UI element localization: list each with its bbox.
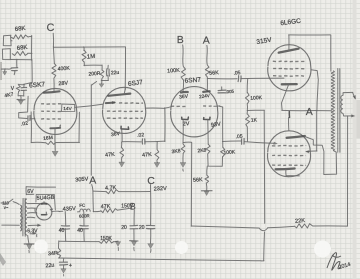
wire 400K to plate [53, 78, 55, 91]
svg-text:22u: 22u [111, 70, 120, 77]
6L6 lower plate wire to OT bottom [305, 137, 337, 175]
resistor 4K7 grid leak [4, 85, 20, 99]
label 6SJ7 [128, 79, 144, 88]
6L6 upper cathode bar [282, 83, 297, 86]
wire A column down [92, 185, 94, 212]
wire choke to A node [93, 210, 100, 212]
wire to coupling cap [16, 59, 18, 67]
6L6 lower grid row 3 [272, 164, 306, 167]
resistor 56K (tail) [193, 175, 209, 184]
label 6SK7 [29, 81, 46, 89]
label 93V [211, 121, 222, 128]
label 315V [256, 37, 273, 46]
label 110v mains [2, 201, 9, 210]
ground (56K tail) [202, 183, 213, 196]
6SJ7 grid row 3 [107, 117, 143, 120]
junction tick [288, 112, 290, 118]
6SK7 cathode bar [50, 125, 60, 128]
wire rectifier output 435V [52, 210, 63, 212]
6SK7 grid row 3 [41, 118, 61, 121]
resistor 200R [88, 65, 104, 79]
svg-text:68K: 68K [17, 45, 28, 52]
6SN7 left cathode [182, 117, 189, 120]
6SJ7 cathode wire [121, 130, 123, 142]
mains wire 2 [2, 224, 20, 226]
wire right plate node [208, 78, 238, 80]
svg-text:v~: v~ [4, 205, 9, 210]
6SN7 right grid [203, 105, 220, 107]
svg-text:22u: 22u [45, 262, 55, 269]
power transformer core [23, 198, 25, 236]
wire feedback vertical [190, 143, 192, 227]
rectifier 5U4GB label box [36, 194, 55, 210]
capacitor .05 (lower coupling) [235, 134, 244, 145]
wire 4.7K to C [119, 191, 151, 193]
wire HV secondary to ground [28, 235, 29, 244]
label 6V winding box [26, 187, 56, 195]
6SJ7 grid row 2 [107, 110, 143, 113]
wire screen column (A) [91, 82, 96, 176]
label 14V box [62, 104, 75, 112]
svg-text:A: A [306, 106, 313, 118]
wire to lower tube [288, 118, 290, 131]
power transformer secondary [25, 199, 27, 235]
6SK7 lower box bottom + resistor 16M [31, 135, 79, 144]
svg-text:20: 20 [121, 225, 127, 231]
ground (47K grid leak) [154, 160, 160, 167]
wire cathode return bottom [59, 258, 264, 261]
label 435V [63, 206, 77, 213]
power transformer primary [20, 205, 22, 231]
label 2V [183, 121, 190, 127]
wire jack box bottom [11, 59, 33, 61]
6L6 lower cathode hook [286, 169, 300, 176]
label 36V [111, 131, 121, 138]
tube 6L6 lower envelope [268, 131, 311, 177]
svg-text:100K: 100K [250, 95, 263, 102]
label 6L6GC [280, 18, 302, 27]
capacitor 40uF output [77, 212, 88, 242]
svg-text:22K: 22K [295, 218, 306, 225]
tube 6L6 upper envelope [268, 45, 311, 91]
wire grid2 column [220, 106, 223, 147]
label 232V [154, 186, 168, 193]
filament wire 2 [30, 231, 37, 237]
wire node to long vertical [247, 109, 264, 111]
secondary tap 4 [27, 213, 37, 218]
speaker terminal bottom [343, 114, 355, 118]
resistor 150K (bleeder) [99, 236, 114, 244]
input jack J1 [3, 35, 12, 45]
6SN7 left cathode wire [182, 120, 184, 144]
wire 1M to screen node [84, 62, 102, 66]
speaker terminal top [343, 92, 356, 99]
label 28V [58, 81, 68, 88]
paper hole punch right [314, 241, 331, 258]
capacitor .02 (interstage) [137, 132, 145, 144]
wire 435V node [78, 211, 80, 213]
6SJ7 cathode hook [121, 126, 129, 129]
svg-text:34R: 34R [48, 251, 58, 258]
svg-text:28V: 28V [58, 81, 68, 88]
svg-text:20: 20 [139, 225, 145, 231]
resistor 68K (lower mixing resistor) [12, 45, 32, 56]
wire feedback bottom left [191, 226, 258, 228]
ground (150K) [114, 241, 121, 251]
capacitor .05 (upper coupling) [233, 70, 241, 82]
wire 6SJ7 right to corner [146, 107, 165, 109]
resistor 1M (screen feed) [82, 47, 95, 62]
6L6 upper grid row 3 [273, 75, 304, 78]
label 305V A [75, 174, 96, 186]
paper hole punch middle [175, 241, 188, 254]
ground (47K) [119, 157, 125, 167]
6L6 lower grid row 1 [272, 144, 306, 147]
label 150V B [121, 201, 136, 211]
6SK7 cathode wire [54, 129, 56, 150]
resistor 47K (cathode) [105, 142, 124, 158]
svg-text:232V: 232V [154, 186, 168, 193]
wire C column [150, 185, 152, 226]
tube 6SJ7 envelope [103, 87, 146, 133]
6SK7 lower box left [30, 112, 32, 143]
secondary tap 3 [28, 212, 35, 214]
wire A to OT center tap [317, 110, 332, 112]
wire 1K down [246, 127, 248, 141]
svg-text:3K8: 3K8 [171, 148, 181, 155]
wire .05 to lower 6L6 grid [244, 142, 278, 145]
svg-text:A: A [89, 174, 96, 186]
resistor 2K8 [197, 144, 210, 154]
node A label (right) [306, 106, 313, 118]
wire B down [182, 45, 185, 67]
resistor 400K (6SK7 plate load) [52, 47, 71, 78]
mains switch [1, 199, 19, 204]
ground (6SK7 cathode) [52, 151, 58, 156]
wire A down [206, 45, 209, 65]
capacitor (input RF bypass) [11, 68, 17, 75]
wire grid2 to .05 [222, 140, 241, 143]
tube 6SK7 envelope [34, 88, 77, 134]
wire bus to 34R [58, 241, 60, 248]
wire 56K tail [206, 166, 209, 175]
svg-text:305V: 305V [75, 176, 89, 183]
resistor 68K (upper mixing resistor) [11, 26, 32, 39]
wire filter ground bus [59, 240, 99, 242]
wire cathode bottoms join [208, 154, 223, 167]
5U4GB plate bar [42, 202, 47, 204]
filter choke FC 600R [79, 203, 90, 219]
wire grid network bottom [18, 92, 24, 100]
6SK7 plate bar [44, 91, 60, 92]
svg-text:.02: .02 [21, 121, 29, 128]
svg-text:B: B [130, 201, 136, 211]
svg-text:FC: FC [79, 203, 85, 208]
resistor 100K (grid 2 leak) [221, 147, 236, 157]
capacitor .005 (inverter tap) [218, 87, 235, 94]
wire step to .02 cap [19, 96, 28, 118]
wire C down [52, 33, 54, 47]
6SN7 left grid [165, 106, 186, 108]
resistor 47K (B feed) [101, 204, 118, 213]
svg-text:150K: 150K [100, 236, 112, 242]
wire RC bottom [101, 79, 108, 81]
capacitor 40uF input [59, 212, 70, 242]
6SJ7 plate bar [108, 94, 130, 96]
label 36V (6SN7) [179, 94, 189, 101]
capacitor 20uF (C) [139, 225, 155, 231]
node A label [203, 35, 210, 47]
label 224V [199, 93, 211, 99]
svg-text:+: + [69, 263, 72, 269]
output transformer secondary [341, 95, 343, 113]
resistor 4.7K (A to C) [93, 185, 119, 194]
wire input node vertical [31, 35, 34, 82]
svg-text:6SK7: 6SK7 [29, 81, 46, 89]
wire 6SK7 to 6SJ7 grid [75, 104, 103, 107]
resistor 1K [246, 111, 258, 128]
6SK7 grid row 2 [41, 110, 61, 112]
6SN7 right cathode wire [207, 120, 209, 145]
6SN7 right cathode [204, 117, 210, 119]
wire cathode node to A [282, 109, 317, 111]
6L6 upper plate lead [288, 35, 290, 51]
wire top rail to 6SJ7 plate [53, 47, 125, 90]
6L6 upper grid row 2 [273, 67, 304, 70]
resistor 56K (6SN7 right plate load) [205, 65, 219, 77]
svg-text:.05: .05 [233, 70, 241, 77]
6SN7 right plate bar [203, 90, 209, 93]
resistor 47K (grid leak) [142, 142, 159, 161]
6SJ7 grid arrow [106, 101, 116, 104]
6SK7 lower box right [78, 112, 80, 142]
tube 6SN7 envelope [171, 87, 218, 137]
signature [327, 253, 351, 271]
svg-text:6SN7: 6SN7 [184, 77, 201, 85]
wire 22K to secondary [313, 225, 348, 227]
wire A down to lower screen [316, 111, 318, 151]
resistor 22K (feedback) [268, 218, 313, 228]
wire 47K to B [118, 208, 132, 210]
svg-text:40: 40 [77, 228, 83, 234]
ground (22u bias) [61, 265, 66, 276]
wire 56K to plate [206, 77, 208, 92]
svg-text:1M: 1M [87, 54, 96, 61]
6L6 lower grid row 2 [272, 154, 306, 156]
wire .02 to 6SK7 grid [30, 118, 35, 120]
wire cathode node [122, 141, 141, 143]
svg-text:36V: 36V [179, 94, 189, 101]
capacitor .02 (input coupling) [21, 116, 30, 128]
node B label [177, 34, 184, 46]
svg-text:14V: 14V [63, 106, 72, 112]
svg-text:1K: 1K [251, 117, 258, 123]
6L6 lower cathode bar [276, 167, 295, 170]
input jack J2 [2, 49, 10, 60]
capacitor 22u (bypass) [107, 65, 120, 80]
svg-text:40: 40 [59, 228, 65, 234]
6SJ7 grid row 1 [119, 102, 143, 105]
resistor 34R (6L6 bias) [48, 248, 61, 258]
wire feedback from secondary [346, 116, 348, 226]
svg-text:56K: 56K [209, 70, 219, 77]
wire hop over cathode line [259, 228, 268, 231]
svg-text:5U4GB: 5U4GB [37, 195, 55, 202]
label 6.3V [27, 228, 38, 234]
6L6 upper cathode wire [282, 85, 289, 110]
capacitor 22u (bias bypass) [45, 259, 72, 270]
resistor 100K (6SN7 left plate load) [167, 67, 185, 81]
wire plate to OT top [289, 35, 331, 71]
node C (top-left) [47, 22, 55, 34]
wire grid leak node [246, 104, 248, 111]
output transformer core [338, 69, 340, 153]
ground (input) [1, 69, 7, 75]
svg-text:16M: 16M [43, 135, 53, 142]
svg-text:47K: 47K [105, 152, 115, 159]
label 6SN7 [184, 77, 201, 85]
wire B down [133, 210, 135, 226]
svg-text:A: A [203, 35, 210, 47]
paper hole punch left [34, 240, 48, 254]
svg-text:100K: 100K [223, 149, 236, 156]
svg-text:100K: 100K [167, 68, 180, 75]
5U4GB cathode [42, 212, 47, 215]
ground (20uF B) [130, 229, 138, 251]
secondary tap 2 [27, 208, 35, 212]
6L6 upper grid row 1 [273, 60, 305, 63]
svg-text:2K8: 2K8 [197, 147, 207, 154]
5U4GB output nub [50, 208, 52, 211]
6L6 upper screen wire [311, 70, 318, 111]
svg-text:.005: .005 [225, 89, 235, 95]
svg-text:.02: .02 [137, 132, 145, 139]
svg-text:B: B [177, 34, 184, 46]
svg-text:47K: 47K [142, 152, 152, 159]
wire .02 to corner [145, 140, 165, 143]
wire cap to ground [8, 68, 11, 71]
6L6 lower plate bar [287, 136, 305, 138]
wire lower screen [305, 150, 317, 153]
secondary tap 1 [27, 202, 41, 204]
ground (power transformer) [24, 244, 34, 253]
wire input node to grid network [18, 82, 32, 84]
wire cathode long vertical [264, 110, 265, 260]
svg-text:56K: 56K [193, 177, 203, 184]
svg-text:68K: 68K [15, 26, 26, 33]
wire feedback to cathode [183, 141, 191, 143]
6SJ7 plate lead [124, 88, 125, 94]
ground (3K8) [180, 154, 186, 172]
ground (200R/22u) [99, 80, 104, 87]
ground (6SK7 grid network) [17, 100, 25, 105]
rectifier 5U4GB envelope [36, 203, 52, 220]
capacitor 20uF (B) [121, 225, 138, 231]
svg-text:400K: 400K [58, 66, 71, 73]
6L6 upper plate bar [279, 49, 299, 53]
wire 100K to plate [182, 80, 185, 92]
svg-text:200R: 200R [88, 71, 101, 78]
capacitor grid bypass [21, 85, 26, 96]
svg-text:C: C [47, 22, 55, 34]
svg-text:435V: 435V [63, 206, 77, 213]
svg-text:C: C [147, 175, 155, 187]
node C label (mid) [147, 175, 155, 187]
6SK7 grid row 1 [41, 103, 61, 105]
wire .05 to upper 6L6 grid [241, 77, 284, 80]
6SN7 left plate bar [181, 91, 188, 94]
ground (20uF C) [148, 229, 154, 253]
resistor 3K8 [171, 144, 184, 155]
output transformer primary [331, 71, 334, 151]
resistor 100K (upper grid leak) [245, 79, 262, 104]
filament wire 6.3V [28, 224, 41, 227]
wire corner up [164, 108, 166, 142]
